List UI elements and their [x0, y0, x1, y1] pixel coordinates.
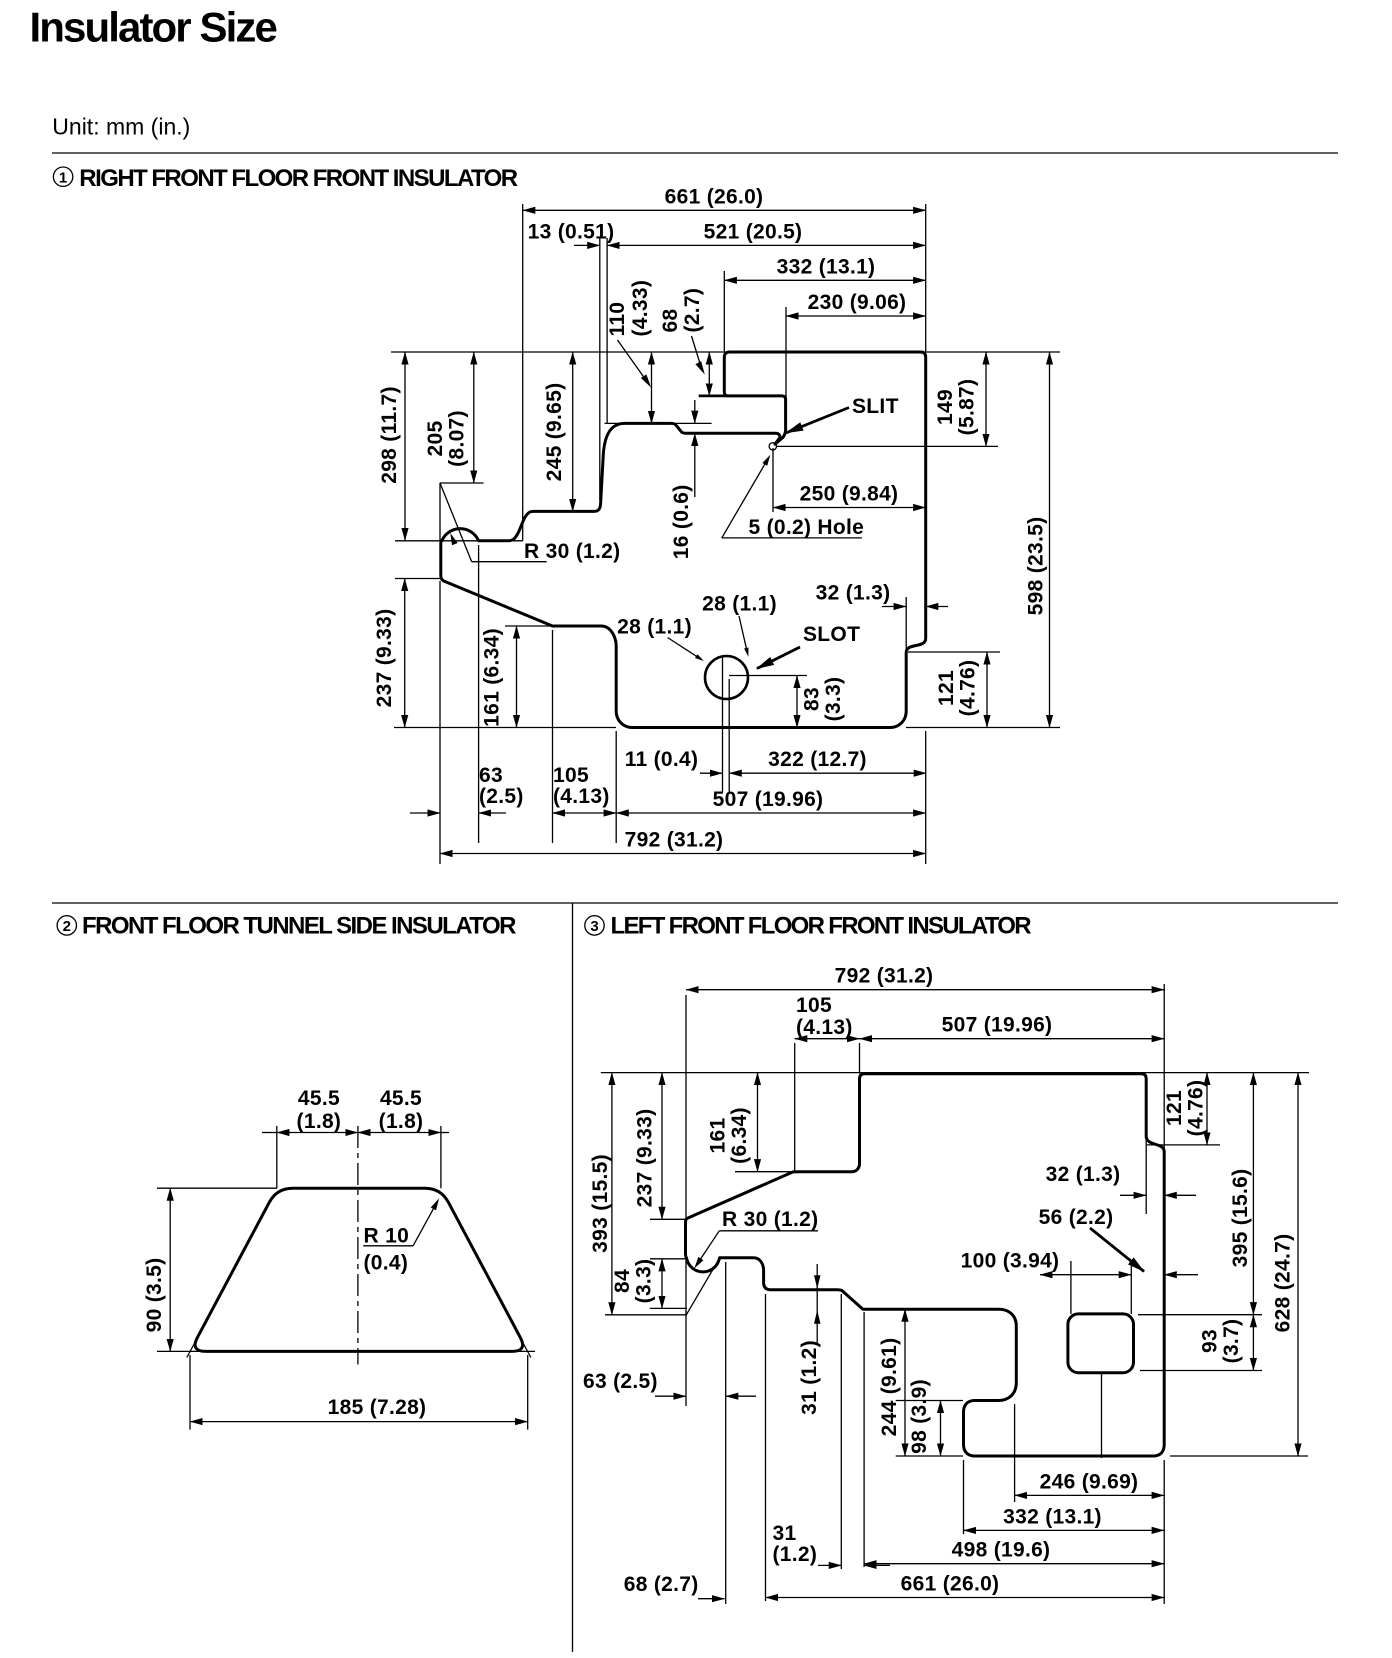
dim 332 (13.1) d3: [964, 1529, 1165, 1531]
top rule: [52, 152, 1338, 154]
svg-text:SLIT: SLIT: [852, 395, 899, 418]
svg-text:32 (1.3): 32 (1.3): [1046, 1163, 1121, 1186]
svg-text:792 (31.2): 792 (31.2): [625, 829, 724, 852]
extension line right edge above shape: [925, 204, 927, 352]
svg-text:230 (9.06): 230 (9.06): [808, 291, 907, 314]
svg-text:83: 83: [800, 687, 823, 711]
hole 5mm in insulator 1: [769, 443, 776, 450]
svg-text:105: 105: [796, 994, 832, 1017]
svg-text:(4.33): (4.33): [629, 280, 652, 337]
svg-text:98 (3.9): 98 (3.9): [908, 1379, 931, 1454]
extension bottom edge left: [394, 727, 616, 729]
dim 98 (3.9): [896, 1400, 963, 1402]
dim 45.5 (1.8) left: [262, 1132, 277, 1134]
dim 32 (1.3) d1: [905, 597, 907, 652]
svg-text:84: 84: [611, 1269, 634, 1293]
dim 298 (11.7): [404, 352, 406, 541]
dim 230 (9.06): [786, 315, 926, 317]
svg-text:(4.13): (4.13): [796, 1016, 853, 1039]
section divider horizontal: [52, 902, 1338, 904]
section divider vertical: [572, 903, 574, 1652]
dim 13 (0.51): [574, 244, 600, 246]
dim 507 (19.96) d3: [860, 1038, 1165, 1040]
svg-text:SLOT: SLOT: [803, 623, 860, 646]
insulator 1 outline: [441, 352, 926, 728]
svg-text:661 (26.0): 661 (26.0): [665, 185, 764, 208]
svg-text:661 (26.0): 661 (26.0): [901, 1573, 1000, 1596]
dim 11 (0.4): [700, 772, 723, 774]
extension hole center horizontal for dim 149: [777, 445, 998, 447]
svg-text:246 (9.69): 246 (9.69): [1040, 1470, 1139, 1493]
dim 149 (5.87): [985, 352, 987, 446]
svg-text:R 30 (1.2): R 30 (1.2): [524, 540, 620, 563]
dim 395 (15.6): [1252, 1073, 1254, 1315]
svg-text:11 (0.4): 11 (0.4): [625, 748, 699, 771]
svg-text:322 (12.7): 322 (12.7): [768, 748, 867, 771]
svg-text:1: 1: [59, 169, 67, 186]
svg-text:121: 121: [1163, 1090, 1186, 1126]
svg-text:(4.13): (4.13): [553, 785, 610, 808]
dim 63 (2.5) d1: [410, 812, 440, 814]
svg-text:(6.34): (6.34): [728, 1107, 751, 1164]
dim 83 (3.3): [796, 676, 798, 728]
svg-text:R 10: R 10: [364, 1225, 410, 1248]
svg-text:161: 161: [706, 1118, 729, 1154]
svg-text:237 (9.33): 237 (9.33): [634, 1109, 657, 1208]
dim 31 (1.2) upper: [816, 1264, 818, 1345]
dim 105 (4.13) d3: [795, 1038, 860, 1040]
dim 792 (31.2) d1: [440, 853, 926, 855]
theoretical corner construction d3: [686, 1257, 720, 1316]
dim 185 (7.28): [189, 1355, 191, 1430]
trapezoid center line: [357, 1126, 359, 1365]
svg-text:FRONT FLOOR TUNNEL SIDE INSULA: FRONT FLOOR TUNNEL SIDE INSULATOR: [82, 913, 516, 940]
svg-text:(3.3): (3.3): [822, 677, 845, 722]
svg-text:(4.76): (4.76): [1184, 1080, 1207, 1137]
svg-text:(8.07): (8.07): [445, 410, 468, 467]
dim 521 (20.5): [607, 244, 926, 246]
notch ledge surface extension: [699, 394, 728, 397]
svg-text:63: 63: [479, 764, 503, 787]
svg-text:105: 105: [553, 764, 589, 787]
svg-text:16 (0.6): 16 (0.6): [670, 484, 693, 559]
svg-text:332 (13.1): 332 (13.1): [777, 255, 876, 278]
svg-text:244 (9.61): 244 (9.61): [878, 1338, 901, 1437]
svg-text:205: 205: [424, 421, 447, 457]
svg-text:68 (2.7): 68 (2.7): [624, 1573, 699, 1596]
extension line top edge: [391, 351, 1060, 353]
svg-text:63 (2.5): 63 (2.5): [583, 1370, 658, 1393]
svg-text:250 (9.84): 250 (9.84): [800, 483, 899, 506]
dim 332 (13.1): [724, 279, 925, 281]
section 1 number badge: [53, 167, 72, 186]
svg-text:(0.4): (0.4): [364, 1252, 409, 1275]
svg-text:100 (3.94): 100 (3.94): [961, 1250, 1060, 1273]
slot center lines: [722, 657, 724, 792]
dim 161 (6.34) d3: [757, 1073, 759, 1172]
svg-text:110: 110: [606, 302, 629, 337]
svg-text:13 (0.51): 13 (0.51): [528, 220, 615, 243]
trapezoid construction lines bottom: [157, 1350, 535, 1352]
svg-text:521 (20.5): 521 (20.5): [704, 220, 803, 243]
extension line top edge d3: [601, 1072, 1309, 1074]
svg-text:32 (1.3): 32 (1.3): [816, 582, 891, 605]
svg-text:185 (7.28): 185 (7.28): [328, 1396, 427, 1419]
svg-text:28 (1.1): 28 (1.1): [702, 593, 777, 616]
svg-text:298 (11.7): 298 (11.7): [378, 386, 401, 484]
svg-text:45.5: 45.5: [380, 1087, 422, 1110]
dim 16 (0.6): [605, 422, 627, 424]
svg-text:(3.7): (3.7): [1220, 1319, 1243, 1364]
dim 498 (19.6): [864, 1563, 1164, 1565]
extension hole center vertical for dim 250: [772, 448, 774, 512]
svg-text:31: 31: [773, 1522, 797, 1545]
dim 792 (31.2) d3: [686, 989, 1164, 991]
extension line slit edge / dim 230: [785, 307, 787, 430]
hole center vertical d3: [1101, 1373, 1103, 1458]
svg-text:93: 93: [1198, 1329, 1221, 1353]
svg-text:(1.8): (1.8): [297, 1110, 342, 1133]
dim 90 (3.5): [157, 1187, 277, 1189]
svg-text:90 (3.5): 90 (3.5): [143, 1258, 166, 1333]
svg-text:149: 149: [934, 389, 957, 425]
svg-text:395 (15.6): 395 (15.6): [1229, 1169, 1252, 1268]
svg-text:(4.76): (4.76): [956, 660, 979, 717]
slot circle in insulator 1: [705, 656, 748, 699]
svg-text:31 (1.2): 31 (1.2): [798, 1340, 821, 1415]
dim 237 (9.33) d3: [661, 1073, 663, 1220]
svg-text:(1.8): (1.8): [379, 1110, 424, 1133]
svg-text:507 (19.96): 507 (19.96): [713, 788, 824, 811]
dim 250 (9.84): [773, 507, 926, 509]
dim 661 (26.0): [523, 209, 926, 211]
svg-text:(1.2): (1.2): [773, 1543, 818, 1566]
svg-text:(2.7): (2.7): [681, 288, 704, 333]
svg-text:(2.5): (2.5): [479, 785, 524, 808]
dim 322 (12.7): [729, 772, 926, 774]
section 3 number badge: [585, 916, 604, 935]
svg-text:RIGHT FRONT FLOOR FRONT INSULA: RIGHT FRONT FLOOR FRONT INSULATOR: [79, 165, 517, 192]
svg-text:(5.87): (5.87): [955, 379, 978, 436]
dim 245 (9.65): [572, 352, 574, 511]
extension line for dim 332 left: [723, 271, 725, 352]
dim 93 (3.7): [1252, 1315, 1254, 1371]
svg-text:507 (19.96): 507 (19.96): [942, 1014, 1053, 1037]
insulator 3 outline: [686, 1074, 1165, 1456]
svg-text:56 (2.2): 56 (2.2): [1039, 1206, 1114, 1229]
extension right edge vertical d3 above jog: [1163, 984, 1165, 1152]
svg-text:393 (15.5): 393 (15.5): [589, 1154, 612, 1253]
svg-text:498 (19.6): 498 (19.6): [952, 1539, 1051, 1562]
extension left edge vertical d3: [685, 995, 687, 1406]
extension lines 45.5 dims: [276, 1126, 278, 1188]
svg-text:(3.3): (3.3): [632, 1259, 655, 1304]
dim 661 (26.0) d3: [766, 1597, 1165, 1599]
svg-text:45.5: 45.5: [298, 1087, 340, 1110]
dim 205 (8.07): [473, 352, 475, 483]
dim 507 (19.96) d1: [616, 812, 926, 814]
dim 45.5 (1.8) right: [358, 1132, 441, 1134]
dim 237 (9.33): [395, 578, 441, 580]
extension lines for dim 13: [599, 238, 601, 500]
dim 393 (15.5): [611, 1073, 613, 1315]
extension bottom edge right: [906, 727, 1060, 729]
svg-text:5 (0.2) Hole: 5 (0.2) Hole: [749, 516, 865, 539]
theoretical corner construction top-left: [439, 483, 441, 541]
svg-text:237 (9.33): 237 (9.33): [373, 609, 396, 708]
section 2 number badge: [57, 916, 76, 935]
svg-text:28 (1.1): 28 (1.1): [617, 616, 692, 639]
dim 628 (24.7): [1297, 1073, 1299, 1456]
dim 598 (23.5): [1049, 352, 1051, 728]
svg-text:121: 121: [935, 670, 958, 706]
svg-text:Insulator Size: Insulator Size: [30, 4, 277, 51]
dim 121 (4.76) d3: [1147, 1144, 1220, 1146]
dim 161 (6.34): [505, 625, 552, 627]
svg-text:332 (13.1): 332 (13.1): [1003, 1505, 1102, 1528]
insulator 2 trapezoid outline: [195, 1188, 522, 1351]
svg-text:598 (23.5): 598 (23.5): [1025, 517, 1048, 616]
svg-text:3: 3: [590, 918, 598, 935]
svg-text:161 (6.34): 161 (6.34): [481, 628, 504, 727]
svg-text:68: 68: [659, 309, 682, 333]
dim 105 (4.13) d1: [553, 812, 617, 814]
svg-text:Unit: mm (in.): Unit: mm (in.): [52, 114, 190, 140]
svg-text:R 30 (1.2): R 30 (1.2): [722, 1208, 818, 1231]
svg-text:628 (24.7): 628 (24.7): [1272, 1234, 1295, 1333]
dim 84 (3.3): [661, 1259, 663, 1309]
extension line left of 661/245 at x=522.7: [522, 204, 524, 541]
dim 121 (4.76) d1: [908, 651, 1000, 653]
svg-text:LEFT FRONT FLOOR FRONT INSULAT: LEFT FRONT FLOOR FRONT INSULATOR: [611, 913, 1032, 940]
dim 244 (9.61): [872, 1308, 918, 1310]
dim 246 (9.69): [1015, 1494, 1165, 1496]
svg-text:792 (31.2): 792 (31.2): [835, 965, 934, 988]
svg-text:2: 2: [63, 918, 71, 935]
svg-text:245 (9.65): 245 (9.65): [543, 383, 566, 482]
square hole 100x93 in insulator 3: [1068, 1314, 1134, 1373]
